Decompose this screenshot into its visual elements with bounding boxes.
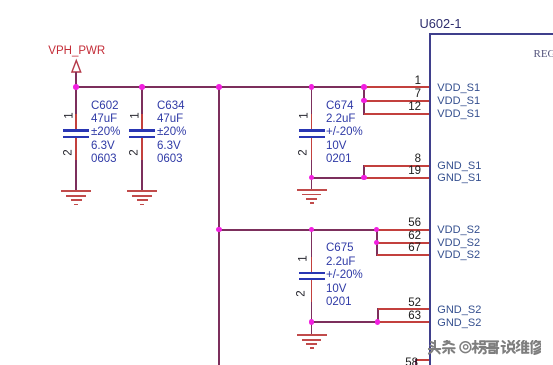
ground for C675: [297, 334, 327, 336]
capacitor C634: [141, 87, 143, 114]
wire S1 fan vertical: [363, 86, 365, 114]
pin name VDD_S2 (pin 56): [437, 223, 480, 237]
pin 52 number: [381, 298, 421, 309]
pin 52 wire: [378, 308, 431, 310]
C675 pin 1 number: [299, 256, 310, 262]
pin 7 wire: [364, 100, 431, 102]
watermark toutiao @yangge: [428, 340, 541, 355]
pin 19 number: [381, 166, 421, 177]
pin name GND_S2 (pin 52): [437, 303, 481, 317]
pin 56 wire: [377, 229, 431, 231]
C674 pin 1 number: [300, 112, 311, 118]
wire C675 ground stub: [311, 322, 313, 335]
pin 62 wire: [377, 242, 431, 244]
pin 63 wire: [378, 321, 431, 323]
capacitor C675: [311, 229, 313, 257]
ground for C674: [297, 189, 327, 191]
capacitor C602: [75, 87, 77, 114]
C602 value label: [91, 100, 120, 167]
text REG (clipped part name): [534, 48, 553, 60]
C674 value label: [326, 100, 363, 167]
pin 58 number (clipped): [378, 358, 418, 365]
C675 pin 2 number: [296, 290, 307, 296]
wire GND_S1 horizontal: [311, 177, 366, 179]
pin 58 wire (partial, bottom edge): [416, 359, 431, 361]
wire GND_S1 fan vertical: [363, 165, 365, 178]
wire GND_S2 horizontal: [311, 321, 379, 323]
ground for C634: [127, 190, 157, 192]
wire VDD_S2 horizontal bus: [218, 229, 378, 231]
pin 67 number: [381, 243, 421, 254]
C634 pin 2 number: [130, 149, 141, 155]
pin 7 number: [381, 89, 421, 100]
pin 8 wire: [364, 165, 431, 167]
pin name VDD_S2 (pin 67): [437, 248, 480, 262]
pin name VDD_S1 (pin 1): [437, 81, 480, 95]
ground for C602: [61, 190, 91, 192]
pin 12 wire: [364, 113, 431, 115]
wire VPH_PWR stem: [75, 72, 77, 88]
IC U602-1 body: [429, 33, 553, 365]
capacitor C674: [311, 87, 313, 114]
pin name VDD_S2 (pin 62): [437, 236, 480, 250]
wire C674 ground stub: [311, 177, 313, 190]
pin 67 wire: [377, 254, 431, 256]
wire VPH_PWR bus (top horizontal): [75, 86, 365, 88]
wire S2 fan vertical: [376, 229, 378, 256]
junction node dots: [73, 84, 79, 90]
wire vertical drop to lower section: [218, 86, 220, 365]
pin 63 number: [381, 311, 421, 322]
pin 1 wire: [364, 86, 431, 88]
pin name GND_S2 (pin 63): [437, 316, 481, 330]
pin name GND_S1 (pin 19): [437, 171, 481, 185]
C674 pin 2 number: [299, 149, 310, 155]
pin name VDD_S1 (pin 12): [437, 107, 480, 121]
net label VPH_PWR: [48, 45, 105, 58]
pin 8 number: [381, 154, 421, 165]
pin name GND_S1 (pin 8): [437, 159, 481, 173]
wire GND_S2 fan vertical: [377, 308, 379, 322]
C675 value label: [326, 242, 363, 309]
U602-1 refdes label: [420, 17, 462, 30]
C602 pin 1 number: [64, 112, 75, 118]
C634 value label: [157, 100, 186, 167]
power symbol VPH_PWR: [66, 56, 88, 76]
pin 1 number: [381, 76, 421, 87]
pin 19 wire: [364, 177, 431, 179]
pin 62 number: [381, 231, 421, 242]
C634 pin 1 number: [130, 112, 141, 118]
pin 56 number: [381, 218, 421, 229]
C602 pin 2 number: [64, 149, 75, 155]
pin 12 number: [381, 102, 421, 113]
pin name VDD_S1 (pin 7): [437, 94, 480, 108]
